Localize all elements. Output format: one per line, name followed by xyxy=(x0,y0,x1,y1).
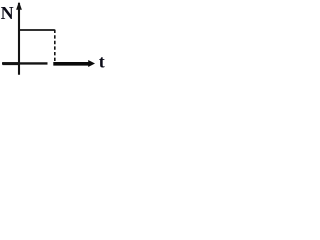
svg-text:t: t xyxy=(99,52,105,72)
svg-text:N: N xyxy=(1,3,14,23)
